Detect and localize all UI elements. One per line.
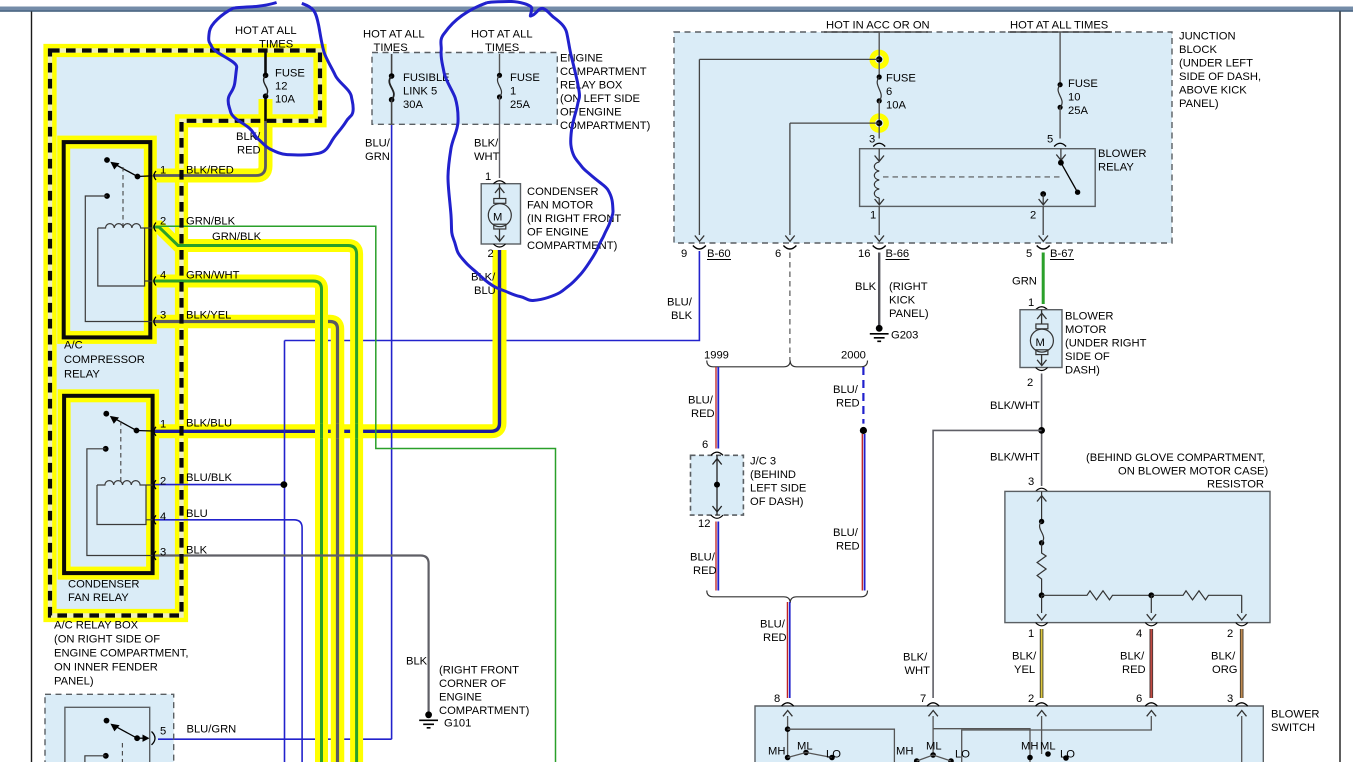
blower relay switch common dot [1058, 160, 1064, 166]
svg-text:A/C RELAY BOX: A/C RELAY BOX [54, 620, 139, 632]
blower switch box [755, 706, 1263, 762]
wire BLU from condenser relay pin 4 down page [153, 520, 302, 762]
svg-text:BLK/: BLK/ [903, 652, 928, 664]
svg-text:G203: G203 [891, 330, 918, 342]
top window bar [0, 7, 1353, 11]
wire BLK from condenser relay pin 3 to ground G101 [153, 556, 429, 712]
svg-text:SWITCH: SWITCH [1271, 722, 1315, 734]
condenser relay switch blade with arrowhead [114, 418, 137, 430]
svg-text:ML: ML [797, 741, 813, 753]
svg-text:FUSE: FUSE [886, 73, 916, 85]
svg-text:LO: LO [955, 749, 970, 761]
resistor pin 2 lead with arrow [1241, 595, 1243, 613]
svg-text:(RIGHT FRONT: (RIGHT FRONT [439, 665, 519, 677]
horizontal resistor element R3 [1151, 591, 1241, 600]
blower relay coil (vertical) [874, 162, 879, 198]
svg-text:RELAY: RELAY [1098, 162, 1134, 174]
svg-text:5: 5 [160, 726, 166, 738]
svg-text:GRN/WHT: GRN/WHT [186, 270, 240, 282]
wire relay pin2 to junction pin 5 [1042, 206, 1044, 235]
svg-text:ON INNER FENDER: ON INNER FENDER [54, 662, 158, 674]
svg-text:BLU/GRN: BLU/GRN [187, 724, 237, 736]
svg-text:2: 2 [1027, 377, 1033, 389]
A/C relay box dashed border [50, 51, 320, 616]
svg-text:6: 6 [1136, 693, 1142, 705]
blower motor box [1020, 310, 1062, 368]
svg-text:M: M [1036, 337, 1045, 349]
svg-text:TIMES: TIMES [259, 39, 293, 51]
bottom relay switch common dot [104, 718, 110, 724]
svg-text:BLOWER: BLOWER [1065, 311, 1114, 323]
junction dot resistor [1039, 592, 1045, 598]
wire BLU/BLK long horizontal (pin9 to condenser relay area, drawn under highlights) [285, 251, 700, 341]
yellow highlight ring: node below fuse 6 [872, 116, 886, 130]
svg-text:FUSE: FUSE [1068, 78, 1098, 90]
svg-text:2: 2 [1227, 628, 1233, 640]
A/C relay pin connector arcs [154, 171, 156, 326]
svg-text:B-60: B-60 [707, 248, 731, 260]
condenser relay pin connector arcs [154, 427, 156, 560]
ground G203 symbol [876, 325, 883, 332]
svg-text:(RIGHT: (RIGHT [889, 281, 928, 293]
underline B-66 [886, 259, 910, 261]
svg-text:DASH): DASH) [1065, 365, 1100, 377]
svg-text:BLK/YEL: BLK/YEL [186, 310, 231, 322]
bottom-left relay dashed border [45, 694, 174, 762]
wire fuse 6 to node 2 [878, 101, 880, 139]
blower motor bottom connector arc [1036, 368, 1048, 371]
condenser relay coil frame [97, 485, 153, 525]
svg-text:GRN/BLK: GRN/BLK [212, 231, 262, 243]
engine compartment relay box dashed border [372, 53, 557, 125]
svg-text:BLK/: BLK/ [474, 138, 499, 150]
hand-drawn blue annotation loop around fuse 12 HOT AT ALL TIMES [209, 3, 354, 155]
svg-text:J/C 3: J/C 3 [750, 456, 776, 468]
underline B-60 [707, 259, 731, 261]
condenser fan motor box [481, 184, 520, 244]
wire BLK junction pin 16 to ground G203 [878, 253, 880, 326]
bottom relay pin 5 arrow [137, 737, 144, 739]
condenser relay dashed actuator line [120, 421, 122, 481]
dot on 2000 branch [860, 427, 867, 434]
svg-text:BLK: BLK [406, 656, 428, 668]
svg-text:RESISTOR: RESISTOR [1207, 479, 1264, 491]
svg-text:ENGINE: ENGINE [560, 53, 603, 65]
svg-text:JUNCTION: JUNCTION [1179, 31, 1236, 43]
svg-text:3: 3 [1227, 693, 1233, 705]
underline B-67 [1050, 259, 1074, 261]
wire from HOT AT ALL TIMES to fuse 10 [1059, 32, 1061, 85]
condenser relay switch contact dot [134, 428, 140, 434]
svg-text:HOT IN ACC OR ON: HOT IN ACC OR ON [826, 20, 930, 32]
connector collar pin 6 [783, 246, 796, 250]
svg-text:7: 7 [920, 693, 926, 705]
J/C3 pin 12 connector arc [711, 515, 723, 518]
junction dot BLK/WHT [1038, 427, 1045, 434]
svg-text:KICK: KICK [889, 295, 916, 307]
wire BLU/RED 1999 branch [716, 367, 718, 591]
blower motor top connector arc [1036, 307, 1048, 310]
svg-text:3: 3 [1028, 476, 1034, 488]
horizontal resistor element R2 [1042, 591, 1152, 600]
svg-text:WHT: WHT [474, 151, 500, 163]
yellow highlight: condenser fan relay border [64, 396, 153, 573]
svg-text:(IN RIGHT FRONT: (IN RIGHT FRONT [527, 213, 621, 225]
svg-text:3: 3 [160, 310, 166, 322]
wire BLK/WHT blower motor pin 2 down to junction dot [1041, 374, 1043, 487]
svg-text:(UNDER LEFT: (UNDER LEFT [1179, 58, 1253, 70]
node dot above fuse 6 [876, 56, 882, 62]
svg-text:BLU/: BLU/ [688, 395, 714, 407]
blower relay output contact dot [1040, 191, 1046, 197]
wire BLK/WHT branch left and down to blower switch pin 7 [933, 430, 1042, 698]
A/C relay box fill (L-shape) [50, 51, 320, 616]
svg-text:BLU/: BLU/ [365, 138, 391, 150]
blower motor internals [1037, 310, 1046, 324]
yellow highlight: A/C relay box dashed border [50, 51, 320, 616]
svg-text:BLK/RED: BLK/RED [186, 165, 234, 177]
svg-text:6: 6 [702, 439, 708, 451]
switch group 1 contacts [785, 755, 791, 761]
wire from HOT IN ACC OR ON to fuse 6 [878, 32, 880, 77]
wire BLK/YEL resistor pin1 to switch pin 2 [1040, 629, 1044, 698]
yellow highlight: A/C compressor relay border [64, 142, 151, 337]
connector collar pin 5 B-67 [1037, 246, 1050, 250]
dashed wire junction pin 6 down to year split [789, 253, 791, 361]
svg-text:25A: 25A [1068, 105, 1088, 117]
svg-text:LEFT SIDE: LEFT SIDE [750, 483, 806, 495]
yellow highlight: wire BLK/RED from fuse 12 to relay pin 1 [153, 99, 266, 176]
fuse F1 symbol [497, 73, 502, 78]
fuse F10 symbol [1058, 82, 1063, 87]
svg-text:8: 8 [774, 693, 780, 705]
svg-text:FUSIBLE: FUSIBLE [403, 72, 450, 84]
svg-text:SIDE OF DASH,: SIDE OF DASH, [1179, 71, 1261, 83]
svg-text:MH: MH [768, 746, 785, 758]
condenser relay coil [97, 481, 153, 485]
svg-text:9: 9 [681, 248, 687, 260]
A/C relay coil frame [98, 228, 153, 286]
resistor pin 4 lead with arrow [1150, 595, 1152, 613]
svg-text:BLK/: BLK/ [1120, 651, 1145, 663]
wire BLU/BLK stub from condenser relay pin 2 [153, 484, 284, 486]
svg-text:FUSE: FUSE [275, 68, 305, 80]
bottom relay switch blade with arrowhead [115, 726, 138, 738]
svg-text:B-67: B-67 [1050, 248, 1074, 260]
A/C compressor relay border U1 [64, 142, 151, 337]
connector collar pin 9 [693, 246, 706, 250]
svg-text:5: 5 [1026, 248, 1032, 260]
blower relay coil lead-in arrow [878, 149, 880, 161]
resistor pin 3 connector arc [1036, 488, 1048, 491]
resistor pin 1 lead with arrow [1041, 595, 1043, 613]
svg-text:2: 2 [488, 248, 494, 260]
svg-text:(ON RIGHT SIDE OF: (ON RIGHT SIDE OF [54, 634, 160, 646]
wire GRN/WHT highlighted core [153, 281, 322, 762]
svg-text:2: 2 [1028, 693, 1034, 705]
junction block dashed border [674, 32, 1172, 243]
wire BLK/ORG resistor pin2 to switch pin 3 [1240, 629, 1244, 698]
svg-text:BLK/BLU: BLK/BLU [186, 418, 232, 430]
svg-text:BLU/: BLU/ [760, 619, 786, 631]
wire fuse 10 down to relay pin 5 [1059, 107, 1061, 138]
blower relay pin 2 lead [1042, 194, 1044, 204]
blower relay switch common arrow in [1060, 149, 1062, 160]
svg-text:BLK: BLK [671, 310, 693, 322]
wire BLU/BLK vertical from junction dot up to long horizontal and down page [284, 341, 286, 762]
connector arc pin 3 into blower relay [873, 143, 885, 146]
svg-text:ENGINE COMPARTMENT,: ENGINE COMPARTMENT, [54, 648, 188, 660]
resistor internal lead from pin 3 [1041, 491, 1043, 521]
svg-text:MOTOR: MOTOR [1065, 324, 1106, 336]
svg-text:BLK: BLK [186, 545, 208, 557]
A/C relay switch contact dot [135, 174, 141, 180]
svg-text:TIMES: TIMES [374, 42, 408, 54]
hand-drawn blue annotation loop around fuse 1 and condenser fan motor [441, 1, 613, 300]
svg-text:10: 10 [1068, 92, 1080, 104]
svg-text:YEL: YEL [1014, 664, 1035, 676]
svg-text:10A: 10A [886, 100, 906, 112]
node dot below fuse 6 [876, 120, 882, 126]
svg-text:LO: LO [1060, 749, 1075, 761]
A/C relay pin 1 stub [138, 175, 153, 178]
svg-text:30A: 30A [403, 99, 423, 111]
yellow highlight: wire BLK/YEL from relay pin 3 down page [153, 322, 338, 762]
svg-text:MH: MH [896, 746, 913, 758]
bottom relay dashed actuator line [121, 743, 123, 762]
svg-text:ENGINE: ENGINE [439, 692, 482, 704]
switch group 2 contacts [914, 758, 920, 762]
svg-text:BLU: BLU [186, 508, 208, 520]
engine compartment relay box fill [372, 53, 557, 125]
svg-text:ABOVE KICK: ABOVE KICK [1179, 85, 1247, 97]
svg-text:6: 6 [775, 248, 781, 260]
underline HOT IN ACC OR ON [824, 31, 928, 33]
svg-text:3: 3 [869, 134, 875, 146]
wire GRN/BLK highlighted core [153, 227, 357, 762]
wire relay pin1 to junction pin 16 [878, 206, 880, 235]
blower relay box [860, 149, 1096, 207]
condenser relay pin 3 internal wire [87, 449, 153, 556]
svg-text:(BEHIND GLOVE COMPARTMENT,: (BEHIND GLOVE COMPARTMENT, [1086, 452, 1265, 464]
svg-text:RELAY: RELAY [64, 369, 100, 381]
svg-text:PANEL): PANEL) [54, 676, 94, 688]
wire BLU/GRN horizontal segment (bottom relay pin5, under highlights) [158, 738, 392, 740]
svg-text:BLK/WHT: BLK/WHT [990, 452, 1040, 464]
resistor bottom connector arcs pins 1 4 2 [1036, 623, 1048, 626]
wire BLU/RED 2000 branch dashed [862, 367, 864, 424]
wire GRN junction pin 5 to blower motor [1042, 253, 1045, 305]
svg-text:ORG: ORG [1212, 664, 1237, 676]
svg-text:RED: RED [693, 565, 717, 577]
year merge bottom brace [707, 591, 868, 604]
yellow highlight: wire GRN/BLK from relay pin 2 down page [153, 227, 357, 762]
svg-text:LO: LO [826, 749, 841, 761]
blower relay dashed actuator line [883, 176, 1062, 178]
svg-text:RED: RED [836, 541, 860, 553]
J/C3 pin 6 connector arc [711, 452, 723, 455]
blower switch internal arrows [783, 711, 1247, 717]
text labels right side [667, 20, 1320, 761]
svg-text:COMPARTMENT): COMPARTMENT) [527, 240, 618, 252]
bottom relay pin 5 connector arc [152, 732, 156, 745]
bottom-left relay inner box [65, 707, 150, 762]
svg-text:16: 16 [858, 248, 870, 260]
branch wire left from node 2 to pin 6 [790, 123, 879, 235]
svg-text:FAN RELAY: FAN RELAY [68, 592, 129, 604]
svg-text:1: 1 [485, 171, 491, 183]
A/C relay pin 3 internal wire [85, 196, 152, 322]
blower relay coil to pin 1 [878, 198, 880, 204]
J/C 3 dashed border [691, 455, 744, 515]
svg-text:M: M [493, 212, 502, 224]
junction block fill [674, 32, 1172, 243]
wire BLK/YEL highlighted core [153, 322, 338, 762]
condenser relay pin 1 stub [137, 430, 153, 433]
svg-text:OF ENGINE: OF ENGINE [560, 107, 622, 119]
svg-text:MH: MH [1021, 741, 1038, 753]
svg-text:OF DASH): OF DASH) [750, 496, 804, 508]
condenser fan motor box fill [481, 184, 520, 244]
svg-text:1: 1 [160, 165, 166, 177]
wire BLU/GRN vertical from fusible link 5 down to bottom relay [391, 124, 393, 739]
yellow highlight ring: node above fuse 6 [872, 52, 886, 66]
svg-text:CORNER OF: CORNER OF [439, 678, 506, 690]
resistor box fill [1005, 491, 1270, 622]
blower relay switch blade [1061, 163, 1076, 190]
ground G101 symbol [425, 711, 432, 718]
condenser fan motor bottom connector arc [494, 244, 506, 247]
svg-text:GRN: GRN [365, 151, 390, 163]
year split top brace [707, 361, 868, 367]
text labels middle column [363, 29, 651, 730]
svg-text:4: 4 [1136, 628, 1142, 640]
fuse F12 top lead [265, 50, 267, 52]
svg-text:6: 6 [886, 86, 892, 98]
fuse F6 symbol [877, 74, 882, 79]
resistor box [1005, 491, 1270, 622]
svg-text:1: 1 [510, 86, 516, 98]
condenser fan motor top connector arc [494, 181, 506, 184]
svg-text:BLK: BLK [855, 281, 877, 293]
thermal fuse dots and curve [1039, 519, 1044, 524]
svg-text:ML: ML [1040, 741, 1056, 753]
bottom relay switch contact dot [134, 735, 140, 741]
wire BLU/RED 2000 branch solid [862, 434, 864, 591]
wire BLU/RED merged to blower switch pin 8 [787, 602, 789, 698]
svg-text:LINK 5: LINK 5 [403, 86, 437, 98]
svg-text:CONDENSER: CONDENSER [527, 186, 598, 198]
underline HOT AT ALL TIMES right [1008, 31, 1112, 33]
bottom relay lower contact dot [103, 753, 109, 759]
A/C relay switch common dot [104, 157, 110, 163]
svg-text:BLK/: BLK/ [1012, 651, 1037, 663]
svg-text:1: 1 [1028, 628, 1034, 640]
blower motor box fill [1020, 310, 1062, 368]
bottom relay internal wire [85, 756, 106, 762]
svg-text:12: 12 [698, 518, 710, 530]
svg-text:GRN: GRN [1012, 276, 1037, 288]
svg-text:WHT: WHT [905, 665, 931, 677]
svg-text:RED: RED [1122, 664, 1146, 676]
svg-text:5: 5 [1047, 134, 1053, 146]
yellow highlight: wire BLK/BLU from condenser fan motor to condenser relay pin 1 [153, 250, 500, 431]
svg-text:2: 2 [1030, 210, 1036, 222]
wire BLK/RED core: gray segment down and left to A/C relay pin 1 [153, 121, 266, 176]
svg-text:COMPRESSOR: COMPRESSOR [64, 354, 145, 366]
condenser fan motor internals [495, 184, 504, 199]
fusible link 5 lead [391, 54, 393, 76]
right frame line [1339, 12, 1341, 762]
svg-text:2000: 2000 [841, 350, 866, 362]
condenser relay switch common dot [103, 411, 109, 417]
svg-text:1: 1 [160, 419, 166, 431]
wire crossing patches: verticals over horizontals [322, 314, 357, 439]
svg-text:PANEL): PANEL) [889, 308, 929, 320]
text labels left column [54, 25, 305, 738]
svg-text:12: 12 [275, 81, 287, 93]
fuse F12 symbol [263, 73, 269, 79]
blower switch connector arcs pins 8 7 2 6 3 [782, 703, 794, 706]
svg-text:COMPARTMENT): COMPARTMENT) [439, 705, 530, 717]
svg-text:RELAY BOX: RELAY BOX [560, 80, 623, 92]
condenser relay lower contact dot [103, 446, 109, 452]
J/C 3 box fill [691, 455, 744, 515]
svg-text:GRN/BLK: GRN/BLK [186, 216, 236, 228]
svg-text:2: 2 [160, 476, 166, 488]
svg-text:OF ENGINE: OF ENGINE [527, 227, 589, 239]
svg-text:4: 4 [160, 270, 166, 282]
svg-text:10A: 10A [275, 94, 295, 106]
svg-text:(BEHIND: (BEHIND [750, 469, 796, 481]
wire BLK/BLU highlighted core [153, 250, 500, 431]
branch wire left from node to pin 9 [699, 59, 879, 235]
svg-text:BLU/BLK: BLU/BLK [186, 472, 233, 484]
svg-text:BLK/WHT: BLK/WHT [990, 400, 1040, 412]
svg-text:B-66: B-66 [886, 248, 910, 260]
yellow highlight: wire GRN/WHT from relay pin 4 down page [153, 281, 322, 762]
svg-text:ML: ML [926, 741, 942, 753]
svg-text:1: 1 [870, 210, 876, 222]
wire BLK/RED core: black segment inside fuse-12 compartment [264, 51, 267, 122]
svg-text:PANEL): PANEL) [1179, 98, 1219, 110]
svg-text:BLU/: BLU/ [833, 527, 859, 539]
svg-text:BLU/: BLU/ [690, 552, 716, 564]
svg-text:TIMES: TIMES [485, 42, 519, 54]
connector collar pin 16 [873, 246, 886, 250]
A/C relay switch blade with arrowhead [115, 164, 138, 177]
svg-text:ON BLOWER MOTOR CASE): ON BLOWER MOTOR CASE) [1118, 466, 1268, 478]
svg-text:HOT AT ALL TIMES: HOT AT ALL TIMES [1010, 20, 1108, 32]
junction dot resistor 2 [1148, 592, 1154, 598]
svg-text:FUSE: FUSE [510, 72, 540, 84]
svg-text:FAN MOTOR: FAN MOTOR [527, 200, 593, 212]
svg-text:RED: RED [237, 145, 261, 157]
svg-text:HOT AT ALL: HOT AT ALL [363, 29, 425, 41]
wire BLK/RED resistor pin4 to switch pin 6 [1150, 629, 1154, 698]
wire GRN/BLK thin branch from relay pin 2 to bottom of page [153, 226, 556, 762]
svg-text:BLU/: BLU/ [667, 297, 693, 309]
fusible link 5 symbol [389, 73, 395, 79]
svg-text:HOT AT ALL: HOT AT ALL [235, 25, 297, 37]
wire BLK/WHT fuse 1 to condenser fan motor [499, 97, 501, 178]
fusible link 5 lower lead [391, 100, 393, 125]
svg-text:4: 4 [160, 511, 166, 523]
svg-text:HOT AT ALL: HOT AT ALL [471, 29, 533, 41]
svg-text:RED: RED [763, 632, 787, 644]
svg-text:25A: 25A [510, 99, 530, 111]
J/C3 internal line with arrows and dot [716, 455, 718, 515]
